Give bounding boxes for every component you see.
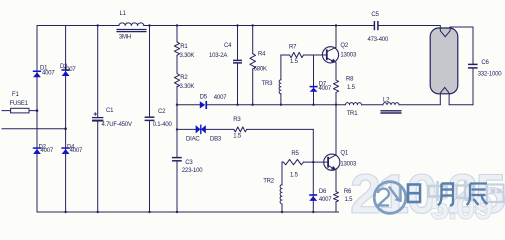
resistor R8 bbox=[333, 80, 338, 93]
wire bottom rail bbox=[37, 211, 339, 213]
diode D6 bbox=[309, 194, 317, 201]
diode D1 bbox=[33, 71, 41, 78]
wire left column x37 bbox=[36, 26, 38, 213]
svg-text:13003: 13003 bbox=[340, 162, 357, 168]
watermark glyph ri bbox=[408, 185, 420, 203]
svg-text:680K: 680K bbox=[254, 66, 267, 72]
wire mid row B bbox=[177, 104, 200, 106]
svg-text:R3: R3 bbox=[233, 117, 241, 123]
svg-text:4007: 4007 bbox=[41, 148, 54, 154]
svg-text:R6: R6 bbox=[344, 189, 352, 195]
wire R4 column bbox=[252, 26, 254, 54]
svg-text:1.5: 1.5 bbox=[347, 85, 356, 91]
svg-text:C3: C3 bbox=[185, 160, 193, 166]
wire TR3 branch bbox=[280, 55, 282, 80]
capacitor C6 bbox=[468, 64, 478, 68]
wire AC live stub with fuse bbox=[2, 110, 37, 112]
resistor R7 bbox=[290, 52, 304, 57]
inductor TR1 bbox=[346, 103, 362, 105]
svg-text:223-100: 223-100 bbox=[182, 168, 203, 174]
svg-text:4007: 4007 bbox=[214, 95, 227, 101]
watermark light glyph dian bbox=[457, 181, 474, 200]
svg-text:R7: R7 bbox=[289, 45, 297, 51]
svg-text:4.7UF-450V: 4.7UF-450V bbox=[102, 122, 133, 128]
svg-text:4007: 4007 bbox=[63, 67, 76, 73]
svg-text:R4: R4 bbox=[258, 52, 266, 58]
wire C2 column bbox=[149, 26, 151, 118]
wire R1/R2/C3 column bbox=[176, 26, 178, 42]
wire C4 column bbox=[237, 26, 239, 61]
svg-text:473-400: 473-400 bbox=[368, 37, 389, 43]
svg-text:F1: F1 bbox=[12, 92, 19, 98]
watermark light glyph zhong bbox=[429, 181, 447, 201]
svg-text:Q1: Q1 bbox=[340, 151, 348, 157]
svg-text:R5: R5 bbox=[291, 151, 299, 157]
svg-text:TR1: TR1 bbox=[347, 111, 359, 117]
diode D4 bbox=[61, 147, 69, 154]
svg-text:R1: R1 bbox=[180, 44, 188, 50]
lamp tube bbox=[430, 26, 458, 105]
transistor Q2 bbox=[322, 47, 338, 63]
watermark pale big digits bbox=[350, 162, 505, 227]
capacitor C3 bbox=[172, 158, 182, 161]
wire TR2 branch / R5 row bbox=[282, 161, 284, 163]
resistor R3 bbox=[234, 127, 247, 132]
svg-text:332-1000: 332-1000 bbox=[478, 72, 503, 78]
watermark light glyph wang bbox=[487, 185, 504, 203]
transistor Q1 bbox=[324, 154, 340, 170]
inductor TR3 bbox=[279, 80, 281, 94]
diode D5 bbox=[200, 101, 207, 109]
svg-text:TR3: TR3 bbox=[262, 81, 274, 87]
svg-text:3MH: 3MH bbox=[119, 35, 131, 41]
svg-text:C1: C1 bbox=[106, 108, 114, 114]
capacitor C2 bbox=[145, 117, 155, 120]
resistor R4 bbox=[250, 54, 256, 69]
svg-text:1.5: 1.5 bbox=[345, 197, 354, 203]
svg-text:TR2: TR2 bbox=[263, 179, 275, 185]
wire Q2 emitter / R8 bbox=[335, 62, 337, 80]
wire Q2 collector bbox=[335, 26, 337, 48]
wire lamp right loop bbox=[450, 26, 473, 28]
capacitor C4 bbox=[233, 60, 242, 63]
wire C1 column bbox=[97, 26, 99, 118]
resistor R5 bbox=[284, 159, 304, 164]
wire column x65.6 bbox=[65, 26, 67, 213]
svg-text:C4: C4 bbox=[224, 43, 232, 49]
svg-text:C5: C5 bbox=[371, 12, 379, 18]
svg-text:1.5: 1.5 bbox=[233, 134, 242, 140]
svg-text:L2: L2 bbox=[383, 98, 390, 104]
resistor R2 bbox=[174, 74, 179, 87]
wire AC neutral stub bbox=[2, 128, 66, 130]
diode D3 bbox=[61, 69, 69, 76]
svg-text:3.30K: 3.30K bbox=[180, 53, 195, 59]
svg-text:1.5: 1.5 bbox=[290, 173, 299, 179]
inductor L2 bbox=[383, 103, 399, 105]
capacitor C1 bbox=[92, 112, 103, 120]
svg-text:L1: L1 bbox=[120, 11, 127, 17]
watermark glyph yue bbox=[438, 184, 453, 206]
fuse F1 bbox=[11, 108, 29, 113]
svg-text:DIAC: DIAC bbox=[186, 137, 200, 143]
svg-text:13003: 13003 bbox=[340, 53, 357, 59]
svg-text:Q2: Q2 bbox=[340, 43, 348, 49]
svg-text:FUSE1: FUSE1 bbox=[10, 101, 29, 107]
svg-text:4007: 4007 bbox=[319, 197, 332, 203]
svg-text:D6: D6 bbox=[319, 189, 327, 195]
wire DIAC row C bbox=[177, 128, 195, 130]
capacitor C5 bbox=[374, 21, 378, 30]
svg-text:C2: C2 bbox=[158, 109, 166, 115]
svg-text:R2: R2 bbox=[180, 75, 188, 81]
svg-text:103-2A: 103-2A bbox=[209, 53, 227, 59]
resistor R1 bbox=[174, 42, 179, 55]
svg-text:3.30K: 3.30K bbox=[180, 84, 195, 90]
svg-text:DB3: DB3 bbox=[210, 137, 222, 143]
svg-text:D5: D5 bbox=[200, 95, 208, 101]
diode D2 bbox=[33, 147, 41, 154]
svg-text:4007: 4007 bbox=[70, 148, 83, 154]
resistor R6 bbox=[334, 192, 339, 202]
wire D6 column bbox=[312, 129, 314, 194]
wire top rail bbox=[37, 25, 119, 27]
svg-text:4007: 4007 bbox=[42, 70, 55, 76]
svg-text:0.1-400: 0.1-400 bbox=[153, 122, 173, 128]
wire Q1 emitter / R6 bbox=[335, 170, 337, 192]
svg-text:1.5: 1.5 bbox=[290, 59, 299, 65]
inductor TR2 bbox=[280, 185, 282, 204]
svg-text:C6: C6 bbox=[481, 60, 489, 66]
wire D7 column bbox=[313, 55, 315, 86]
diode D7 bbox=[310, 86, 318, 92]
inductor L1 bbox=[119, 23, 144, 26]
watermark logo circle 2N bbox=[374, 182, 406, 214]
watermark glyph chen bbox=[467, 184, 488, 206]
wire Q1 collector bbox=[335, 105, 337, 155]
svg-text:4007: 4007 bbox=[319, 86, 332, 92]
svg-text:R8: R8 bbox=[346, 76, 354, 82]
diac DB3 bbox=[196, 125, 206, 135]
